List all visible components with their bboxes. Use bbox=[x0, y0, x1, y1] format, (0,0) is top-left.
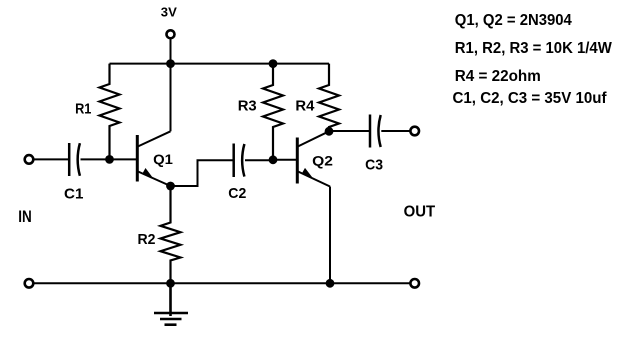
3V supply terminal bbox=[167, 30, 175, 38]
resistor R3 bbox=[263, 64, 283, 160]
capacitor C2 bbox=[234, 144, 245, 178]
capacitor C1 bbox=[69, 143, 80, 176]
svg-text:IN: IN bbox=[18, 207, 32, 226]
output terminal bbox=[410, 127, 419, 136]
svg-text:Q1, Q2 = 2N3904: Q1, Q2 = 2N3904 bbox=[455, 12, 572, 29]
svg-text:Q1: Q1 bbox=[153, 151, 173, 167]
node junction C2 / R3 / Q2 base bbox=[269, 155, 278, 164]
wire Q1 collector to rail bbox=[170, 64, 172, 132]
wire base node to Q1 bbox=[110, 158, 138, 160]
left ground terminal bbox=[25, 279, 34, 288]
node junction 3V / Q1 collector bbox=[166, 59, 175, 68]
wire input terminal to C1 bbox=[33, 158, 69, 160]
ground bbox=[154, 283, 188, 324]
right ground terminal bbox=[410, 279, 419, 288]
resistor R4 bbox=[319, 64, 339, 132]
node junction R2 / ground symbol bbox=[166, 279, 175, 288]
svg-text:C1, C2, C3 = 35V 10uf: C1, C2, C3 = 35V 10uf bbox=[453, 90, 608, 107]
svg-text:R1: R1 bbox=[75, 101, 91, 118]
capacitor C3 bbox=[370, 115, 381, 148]
wire top supply rail bbox=[110, 63, 330, 65]
svg-text:C2: C2 bbox=[228, 185, 246, 202]
node junction R4 / Q2 collector / C3 bbox=[325, 127, 334, 136]
node junction Q1 emitter / R2 / coupling wire bbox=[166, 182, 175, 191]
transistor Q1 bbox=[137, 131, 170, 186]
svg-text:C1: C1 bbox=[64, 186, 83, 203]
transistor Q2 bbox=[297, 131, 330, 186]
wire Q2 base node to Q2 bbox=[273, 159, 297, 161]
input terminal bbox=[25, 155, 34, 164]
svg-text:R2: R2 bbox=[138, 231, 156, 248]
node junction Q2 emitter / bottom rail bbox=[326, 279, 335, 288]
wire collector node to C3 bbox=[329, 130, 370, 132]
wire C1 to base node bbox=[81, 158, 110, 160]
svg-text:R3: R3 bbox=[238, 97, 257, 114]
svg-text:C3: C3 bbox=[365, 157, 383, 174]
svg-text:Q2: Q2 bbox=[312, 153, 333, 169]
svg-text:OUT: OUT bbox=[404, 203, 436, 220]
svg-text:R4: R4 bbox=[295, 97, 315, 114]
resistor R1 bbox=[100, 64, 120, 160]
wire C3 to output terminal bbox=[381, 130, 410, 132]
node junction C1 / R1 / Q1 base bbox=[105, 155, 114, 164]
resistor R2 bbox=[161, 186, 181, 283]
node junction rail / R3 bbox=[269, 59, 278, 68]
wire 3V terminal to rail bbox=[170, 38, 172, 63]
wire emitter node to C2 bbox=[171, 160, 234, 186]
svg-text:R4 = 22ohm: R4 = 22ohm bbox=[455, 68, 541, 85]
wire Q2 emitter to bottom rail bbox=[329, 187, 331, 284]
wire C2 to Q2 base node bbox=[245, 159, 273, 161]
bottom ground rail wire bbox=[33, 282, 410, 284]
svg-text:R1, R2, R3 = 10K 1/4W: R1, R2, R3 = 10K 1/4W bbox=[455, 40, 613, 57]
svg-text:3V: 3V bbox=[161, 4, 177, 19]
